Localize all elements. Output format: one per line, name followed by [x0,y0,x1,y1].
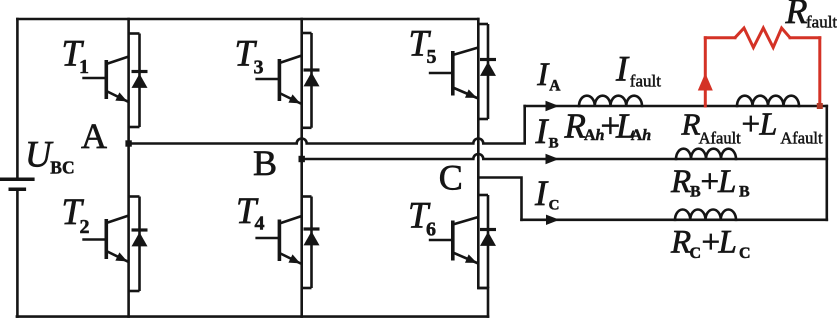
current arrow I_C [546,215,560,225]
svg-text:L: L [759,105,778,141]
wire: phase-leg column C bottom jog [478,288,488,317]
svg-text:L: L [717,164,736,200]
svg-text:C: C [439,157,463,197]
svg-text:R: R [670,164,691,200]
wire: phase A load line [525,105,827,108]
svg-text:A: A [549,78,561,95]
svg-text:5: 5 [427,46,437,68]
wire: right rail joining A,B,C [825,106,828,220]
node B junction dot [299,156,305,162]
inductor R_B+L_B [676,149,736,159]
wire: red fault branch left vertical [704,38,707,106]
svg-text:fault: fault [630,72,661,91]
wire: left rail upper [16,19,19,178]
wire: phase-leg column A [127,19,130,317]
wire: red fault branch top right segment [790,36,820,39]
svg-text:C: C [549,198,560,214]
wire: phase-leg column C upper [477,19,480,288]
wire: phase B output with hop [302,154,827,159]
svg-text:A: A [81,116,107,156]
wire: phase C load line [522,219,827,222]
svg-text:3: 3 [254,56,264,78]
svg-text:B: B [549,136,559,152]
svg-text:+: + [701,164,720,200]
svg-text:B: B [690,184,701,201]
wire: left rail lower [16,191,19,317]
transistor T1 [82,34,147,128]
inductor R_Afault+L_Afault [737,96,799,106]
svg-text:+: + [702,225,721,261]
svg-text:2: 2 [80,216,90,238]
svg-text:A: A [631,127,643,144]
battery U_BC long plate [0,178,35,182]
svg-text:A: A [584,127,596,144]
transistor T2 [82,197,147,292]
svg-text:BC: BC [50,158,74,178]
svg-text:C: C [690,245,702,262]
svg-text:1: 1 [79,56,89,78]
current arrow I_A [546,101,560,111]
svg-text:I: I [535,111,550,151]
svg-text:C: C [739,245,751,262]
current arrow I_B [546,154,560,164]
node A junction dot [125,140,131,146]
svg-text:+: + [742,106,761,142]
wire: phase C output [478,178,521,220]
transistor T5 [429,24,496,119]
svg-text:I: I [615,48,630,88]
wire: red fault branch top left segment [705,36,735,39]
svg-text:Afault: Afault [780,129,823,148]
svg-text:I: I [534,173,549,213]
svg-text:R: R [670,225,691,261]
svg-text:B: B [739,184,750,201]
svg-text:4: 4 [255,213,265,235]
battery U_BC short plate [9,187,27,191]
svg-text:R: R [785,0,808,31]
wire: phase A output with hops [129,106,525,144]
wire: top DC bus [17,18,478,21]
wire: phase-leg column B [300,19,303,317]
svg-text:6: 6 [426,219,436,241]
svg-text:R: R [681,106,701,141]
svg-text:R: R [564,106,586,145]
svg-text:Afault: Afault [699,129,742,148]
svg-text:B: B [253,143,277,183]
junction dot red/black [817,103,823,109]
transistor T3 [255,33,319,128]
resistor R_fault (red zigzag) [735,28,790,48]
wire: bottom DC bus [17,315,488,318]
inductor R_C+L_C [675,210,736,220]
svg-text:fault: fault [806,13,837,32]
wire: red fault branch right vertical [818,38,821,106]
svg-text:L: L [718,225,737,261]
inductor R_Ah+L_Ah [579,96,642,106]
svg-text:h: h [642,127,651,144]
fault current arrow (red, up) [698,73,713,91]
svg-text:I: I [536,57,550,93]
transistor T4 [255,197,319,289]
transistor T6 [429,195,496,288]
